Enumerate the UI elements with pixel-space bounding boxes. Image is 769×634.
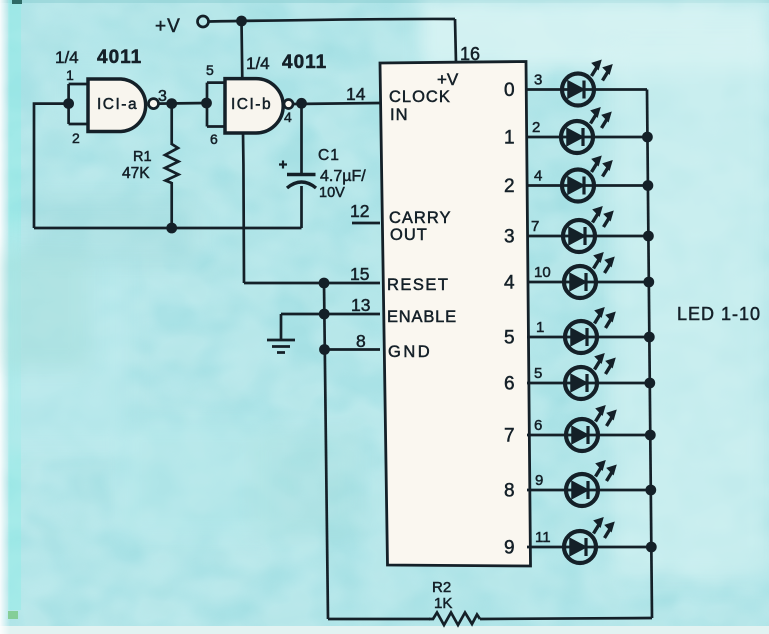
junction LED2 row on bus bbox=[642, 132, 653, 143]
svg-text:4: 4 bbox=[534, 168, 542, 185]
junction reset bbox=[319, 278, 330, 289]
LED10 bbox=[564, 531, 596, 563]
wire LED9 to bus bbox=[598, 489, 651, 492]
wire reset bbox=[244, 282, 380, 285]
svg-text:+V: +V bbox=[437, 70, 459, 89]
svg-text:16: 16 bbox=[460, 44, 480, 64]
LED6 light arrows bbox=[594, 307, 616, 328]
LED7 light arrows bbox=[594, 353, 616, 374]
wire enable bbox=[281, 313, 380, 316]
svg-text:6: 6 bbox=[210, 131, 218, 147]
NAND gate IC1-b bbox=[225, 79, 283, 133]
svg-text:IN: IN bbox=[390, 106, 409, 124]
svg-text:1: 1 bbox=[536, 319, 544, 336]
wire down to C1 bbox=[300, 103, 303, 173]
svg-text:OUT: OUT bbox=[390, 226, 428, 244]
svg-text:8: 8 bbox=[504, 481, 515, 502]
output bubble IC1-a bbox=[149, 99, 159, 109]
svg-text:CARRY: CARRY bbox=[389, 209, 451, 227]
svg-text:6: 6 bbox=[534, 417, 542, 434]
wire output 4 to LED5 bbox=[527, 281, 564, 284]
svg-text:10: 10 bbox=[534, 264, 551, 281]
wire LED1 to bus bbox=[594, 88, 647, 91]
junction +V / reset line bbox=[236, 16, 247, 27]
junction IC1-a input bbox=[63, 98, 74, 109]
svg-text:1: 1 bbox=[504, 128, 515, 149]
resistor R1 bbox=[165, 104, 179, 228]
svg-text:5: 5 bbox=[534, 365, 542, 382]
input stubs IC1-b bbox=[207, 83, 225, 127]
wire +V down to reset (passes behind gate IC1-b) bbox=[242, 21, 245, 283]
junction LED3 row on bus bbox=[643, 180, 654, 191]
svg-text:0: 0 bbox=[504, 80, 515, 101]
LED8 light arrows bbox=[595, 405, 617, 426]
output bubble IC1-b bbox=[284, 100, 293, 109]
junction enable bbox=[319, 309, 330, 320]
+V terminal circle bbox=[198, 16, 209, 27]
svg-text:4011: 4011 bbox=[97, 47, 142, 68]
svg-text:1/4: 1/4 bbox=[246, 54, 270, 73]
svg-text:1K: 1K bbox=[434, 595, 452, 612]
svg-text:15: 15 bbox=[350, 264, 369, 284]
svg-text:2: 2 bbox=[532, 119, 540, 136]
junction LED5 row on bus bbox=[643, 277, 654, 288]
svg-text:4.7µF/: 4.7µF/ bbox=[320, 168, 366, 185]
wire +V top rail bbox=[209, 19, 455, 22]
wire output 5 to LED6 bbox=[527, 336, 565, 339]
svg-text:8: 8 bbox=[356, 331, 366, 351]
svg-text:10V: 10V bbox=[319, 185, 345, 201]
junction LED4 row on bus bbox=[643, 231, 654, 242]
resistor R2 bbox=[429, 613, 480, 626]
wire output 8 to LED9 bbox=[527, 489, 566, 492]
junction R1 bottom bbox=[166, 223, 177, 234]
svg-text:ICI-b: ICI-b bbox=[231, 96, 272, 113]
wire IC1-b output to pin14 bbox=[293, 103, 380, 104]
svg-text:9: 9 bbox=[535, 472, 543, 489]
LED5 bbox=[564, 266, 596, 298]
junction IC1-a output bbox=[166, 98, 177, 109]
LED3 light arrows bbox=[591, 156, 613, 177]
wire output 7 to LED8 bbox=[527, 434, 566, 437]
wire feedback left vertical bbox=[34, 104, 69, 228]
LED10 light arrows bbox=[593, 517, 615, 538]
svg-text:RESET: RESET bbox=[387, 276, 450, 294]
svg-text:7: 7 bbox=[531, 218, 539, 235]
svg-text:CLOCK: CLOCK bbox=[389, 88, 451, 106]
junction LED6 row on bus bbox=[644, 332, 655, 343]
LED2 bbox=[561, 121, 593, 153]
LED2 light arrows bbox=[590, 107, 612, 128]
svg-text:5: 5 bbox=[504, 328, 515, 349]
LED1 bbox=[562, 74, 594, 106]
svg-text:C1: C1 bbox=[318, 147, 340, 164]
svg-text:R2: R2 bbox=[432, 579, 451, 596]
IC U2 4017 box bbox=[380, 62, 531, 567]
wire LED6 to bus bbox=[597, 336, 649, 339]
svg-text:5: 5 bbox=[206, 62, 214, 78]
svg-text:47K: 47K bbox=[122, 165, 150, 182]
wire LED8 to bus bbox=[598, 434, 650, 437]
LED right bus vertical bbox=[647, 90, 652, 619]
LED4 bbox=[563, 220, 595, 252]
svg-text:3: 3 bbox=[504, 227, 515, 248]
wire output 6 to LED7 bbox=[527, 382, 565, 385]
svg-text:12: 12 bbox=[350, 201, 369, 221]
LED8 bbox=[566, 419, 598, 451]
junction gnd bbox=[319, 344, 330, 355]
svg-text:LED 1-10: LED 1-10 bbox=[677, 304, 761, 324]
svg-text:3: 3 bbox=[534, 72, 542, 89]
wire LED10 to bus bbox=[596, 546, 651, 549]
svg-text:6: 6 bbox=[504, 374, 515, 395]
wire LED4 to bus bbox=[595, 235, 648, 238]
LED3 bbox=[562, 170, 594, 202]
svg-text:1/4: 1/4 bbox=[55, 48, 79, 67]
capacitor C1 bbox=[279, 161, 316, 229]
wire feedback bottom horizontal bbox=[34, 227, 302, 230]
LED6 bbox=[565, 321, 597, 353]
junction LED10 row on bus bbox=[646, 542, 657, 553]
svg-text:2: 2 bbox=[72, 130, 80, 146]
wire output 9 to LED10 bbox=[527, 546, 564, 549]
LED9 light arrows bbox=[595, 460, 617, 481]
svg-text:11: 11 bbox=[535, 529, 551, 546]
svg-text:2: 2 bbox=[504, 176, 515, 197]
svg-text:13: 13 bbox=[351, 295, 370, 315]
wire output 0 to LED1 bbox=[527, 88, 562, 91]
svg-text:ICI-a: ICI-a bbox=[97, 96, 138, 113]
svg-text:1: 1 bbox=[66, 67, 74, 83]
NAND gate IC1-a bbox=[88, 79, 146, 132]
LED7 bbox=[565, 367, 597, 399]
junction LED9 row on bus bbox=[645, 485, 656, 496]
bottom wire with resistor R2 bbox=[328, 618, 430, 621]
LED9 bbox=[566, 474, 598, 506]
svg-text:ENABLE: ENABLE bbox=[387, 308, 457, 326]
svg-text:9: 9 bbox=[504, 538, 515, 559]
ground symbol bbox=[267, 314, 295, 353]
junction LED7 row on bus bbox=[644, 378, 655, 389]
svg-text:4: 4 bbox=[504, 273, 515, 294]
svg-text:14: 14 bbox=[346, 84, 366, 104]
wire LED2 to bus bbox=[593, 136, 647, 139]
LED4 light arrows bbox=[592, 206, 614, 227]
input stubs IC1-a bbox=[69, 84, 88, 124]
wire IC1-a output to IC1-b input bbox=[159, 102, 208, 105]
junction IC1-b input bbox=[201, 98, 212, 109]
wire output 2 to LED3 bbox=[527, 184, 562, 187]
wire LED5 to bus bbox=[596, 281, 649, 284]
wire gnd bbox=[325, 348, 381, 351]
LED1 light arrows bbox=[591, 60, 613, 81]
svg-text:GND: GND bbox=[388, 343, 432, 361]
svg-text:7: 7 bbox=[504, 426, 515, 447]
wire LED3 to bus bbox=[594, 184, 648, 187]
svg-text:R1: R1 bbox=[133, 149, 152, 165]
wire output 1 to LED2 bbox=[527, 136, 561, 139]
svg-text:4: 4 bbox=[284, 109, 292, 125]
junction IC1-b output bbox=[296, 98, 307, 109]
svg-text:4011: 4011 bbox=[282, 52, 327, 73]
wire left bus vertical bbox=[324, 283, 328, 619]
wire LED7 to bus bbox=[597, 382, 650, 385]
svg-text:+V: +V bbox=[155, 16, 181, 37]
junction LED8 row on bus bbox=[645, 430, 656, 441]
LED5 light arrows bbox=[593, 252, 615, 273]
wire pin16 drop bbox=[455, 19, 456, 63]
wire output 3 to LED4 bbox=[527, 235, 563, 238]
